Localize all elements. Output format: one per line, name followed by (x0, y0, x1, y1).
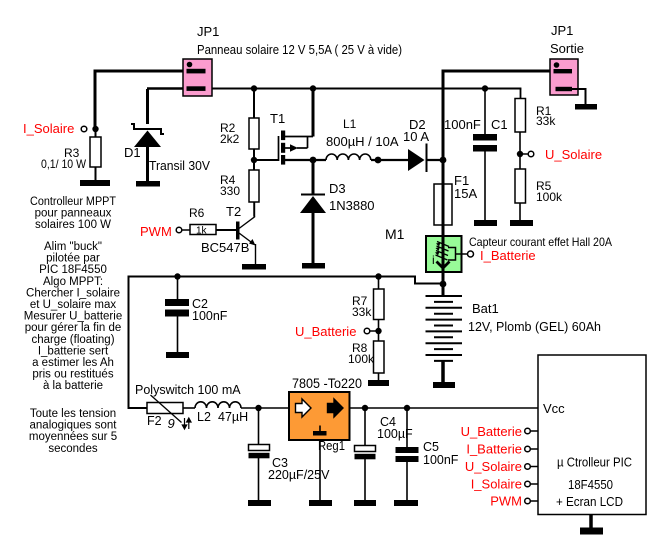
svg-text:100nF: 100nF (444, 117, 481, 132)
node L1-D2 (375, 157, 382, 164)
svg-text:1N3880: 1N3880 (329, 198, 375, 213)
svg-text:L1: L1 (343, 117, 357, 131)
svg-text:Chercher I_solaire: Chercher I_solaire (26, 287, 120, 299)
node R7 tap (375, 273, 381, 279)
svg-text:Alim "buck": Alim "buck" (44, 241, 102, 253)
svg-text:33k: 33k (352, 305, 372, 319)
pin PWM (490, 494, 538, 509)
svg-text:M1: M1 (385, 226, 405, 242)
node C4 tap (362, 405, 368, 411)
capacitor C3 electrolytic (249, 408, 331, 500)
capacitor C4 electrolytic (355, 408, 414, 500)
svg-text:1k: 1k (196, 226, 208, 237)
svg-text:800µH / 10A: 800µH / 10A (326, 134, 399, 149)
svg-text:Transil 30V: Transil 30V (149, 158, 210, 173)
svg-text:Reg1: Reg1 (318, 439, 345, 453)
ground C5 (394, 500, 418, 506)
node D2-output (440, 157, 447, 164)
battery Bat1 (426, 284, 602, 382)
svg-text:F2: F2 (147, 414, 162, 428)
svg-text:PWM: PWM (140, 224, 172, 239)
svg-text:U_Solaire: U_Solaire (465, 459, 522, 474)
svg-text:I_Batterie: I_Batterie (466, 442, 522, 457)
node switching (310, 157, 317, 164)
svg-text:analogiques sont: analogiques sont (30, 420, 118, 432)
svg-text:PWM: PWM (490, 494, 522, 509)
svg-text:Capteur courant effet Hall 20: Capteur courant effet Hall 20A (469, 235, 612, 249)
svg-text:Sortie: Sortie (550, 41, 584, 56)
wire PIC ground (589, 515, 593, 529)
hall sensor M1 (385, 226, 612, 284)
ground PIC (580, 528, 603, 535)
svg-text:2k2: 2k2 (220, 132, 240, 146)
svg-text:I_Solaire: I_Solaire (471, 477, 522, 492)
svg-text:100k: 100k (536, 190, 563, 204)
pin I_Solaire (471, 477, 538, 492)
svg-text:solaires 100 W: solaires 100 W (35, 219, 111, 231)
inductor L2 (183, 402, 289, 424)
node dot T1 drain top (310, 85, 316, 91)
svg-text:U_Solaire: U_Solaire (545, 147, 602, 162)
resistor R7 (352, 277, 384, 342)
svg-text:à la batterie: à la batterie (43, 380, 103, 392)
wire battery rail jog (129, 277, 444, 409)
ground C4 (354, 500, 376, 506)
ground C2 (166, 352, 189, 358)
svg-text:15A: 15A (454, 186, 477, 201)
svg-text:R6: R6 (189, 206, 205, 220)
svg-text:33k: 33k (536, 114, 556, 128)
svg-text:BC547B: BC547B (201, 240, 249, 255)
ground C1 (474, 220, 497, 226)
pin U_Batterie (461, 424, 538, 439)
svg-text:0,1/ 10 W: 0,1/ 10 W (41, 157, 87, 171)
diode D2 (403, 117, 443, 172)
svg-text:µ Ctrolleur PIC: µ Ctrolleur PIC (557, 456, 632, 470)
svg-text:T1: T1 (270, 111, 285, 126)
svg-text:330: 330 (220, 184, 240, 198)
ground battery (433, 382, 455, 388)
node C3 tap (255, 405, 261, 411)
svg-text:pour gérer la fin de: pour gérer la fin de (25, 322, 122, 334)
svg-text:C5: C5 (423, 440, 439, 454)
ground R5 (510, 220, 533, 226)
transil D1 (124, 89, 210, 181)
svg-text:I_Batterie: I_Batterie (480, 248, 536, 263)
svg-text:7805 -To220: 7805 -To220 (292, 376, 362, 391)
node dot R2 top (251, 85, 257, 91)
inductor L1 (326, 117, 408, 160)
svg-text:9: 9 (168, 416, 175, 431)
svg-text:L2: L2 (197, 410, 211, 424)
ground C3 (248, 500, 271, 506)
svg-text:+ Ecran LCD: + Ecran LCD (556, 495, 623, 509)
svg-text:10 A: 10 A (403, 129, 429, 144)
svg-text:moyennées sur 5: moyennées sur 5 (29, 431, 117, 443)
resistor R8 (348, 341, 384, 380)
regulator Reg1 7805 (289, 376, 362, 453)
wire output thick to JP1 sortie (443, 71, 553, 183)
ground D1 (136, 181, 160, 187)
svg-text:a estimer les Ah: a estimer les Ah (32, 357, 114, 369)
svg-text:Controlleur MPPT: Controlleur MPPT (30, 196, 116, 208)
node I_Solaire (23, 121, 99, 136)
node C5 tap (404, 405, 410, 411)
svg-text:U_Batterie: U_Batterie (461, 424, 522, 439)
svg-text:charge (floating): charge (floating) (31, 334, 114, 346)
pin U_Solaire (465, 459, 538, 474)
resistor R4 (220, 170, 259, 217)
node battery plus (440, 281, 447, 288)
ground Reg1 (309, 500, 332, 506)
ground sortie (575, 104, 597, 110)
svg-text:100k: 100k (348, 352, 375, 366)
svg-text:Algo MPPT:: Algo MPPT: (43, 276, 103, 288)
svg-text:D1: D1 (124, 145, 141, 160)
connector JP1 panneau (183, 24, 402, 96)
node gate junction (251, 157, 257, 163)
svg-text:100nF: 100nF (192, 309, 228, 323)
ground R3 (80, 180, 110, 186)
svg-text:pilotée par: pilotée par (46, 253, 100, 265)
svg-text:Vcc: Vcc (543, 401, 565, 416)
capacitor C5 (396, 408, 459, 500)
svg-text:Mesurer U_batterie: Mesurer U_batterie (24, 311, 122, 323)
wire sortie pin2 to ground (572, 89, 586, 104)
resistor R6 (140, 206, 236, 239)
svg-text:Panneau solaire 12 V 5,5A ( 2: Panneau solaire 12 V 5,5A ( 25 V à vide) (197, 42, 402, 57)
wire top-left thick from JP1 pin1 to R3 (95, 71, 187, 129)
diode D3 (300, 160, 375, 263)
microcontroller PIC box (538, 355, 646, 515)
transistor T2 (201, 202, 256, 264)
node U_Solaire (517, 147, 602, 162)
svg-text:I_batterie sert: I_batterie sert (38, 345, 109, 357)
wire Vcc 5V rail (350, 407, 539, 409)
svg-text:Toute les tension: Toute les tension (30, 408, 116, 420)
resistor R1 (515, 89, 556, 155)
wire reg ground (319, 440, 321, 500)
svg-text:12V, Plomb (GEL) 60Ah: 12V, Plomb (GEL) 60Ah (468, 319, 601, 334)
svg-text:D3: D3 (329, 181, 346, 196)
node C2 tap (174, 273, 180, 279)
svg-text:C1: C1 (491, 117, 508, 132)
svg-text:T2: T2 (226, 204, 241, 219)
resistor R2 (220, 89, 259, 171)
ground R8 (368, 380, 389, 386)
svg-text:47µH: 47µH (218, 410, 248, 424)
svg-text:PIC 18F4550: PIC 18F4550 (39, 264, 107, 276)
capacitor C2 (165, 277, 228, 353)
wire panel rail y=88.5 (147, 87, 521, 90)
pin I_Batterie (466, 442, 538, 457)
capacitor C1 (444, 89, 508, 221)
ground D3 (302, 263, 325, 269)
left annotation block 2 (24, 241, 122, 392)
svg-text:100nF: 100nF (423, 453, 459, 467)
svg-text:U_Batterie: U_Batterie (295, 324, 356, 339)
node U_Batterie (295, 324, 382, 339)
svg-text:i: i (432, 253, 435, 267)
mosfet T1 (254, 89, 326, 165)
svg-text:18F4550: 18F4550 (568, 478, 613, 492)
svg-text:Bat1: Bat1 (472, 301, 499, 316)
resistor R3 (41, 129, 101, 180)
left annotation block 3 (29, 408, 117, 455)
ground T2 (242, 264, 266, 270)
polyswitch F2 (135, 383, 241, 431)
svg-text:I_Solaire: I_Solaire (23, 121, 74, 136)
resistor R5 (515, 154, 563, 220)
node dot C1 top (482, 85, 488, 91)
svg-text:pris ou restitués: pris ou restitués (32, 369, 113, 381)
connector JP1 sortie (550, 23, 584, 95)
svg-text:pour panneaux: pour panneaux (35, 208, 112, 220)
fuse F1 (434, 160, 477, 236)
left annotation block 1 (30, 196, 116, 231)
svg-text:secondes: secondes (48, 443, 97, 455)
svg-text:JP1: JP1 (551, 23, 573, 38)
svg-text:et U_solaire max: et U_solaire max (30, 299, 117, 311)
svg-text:JP1: JP1 (197, 24, 219, 39)
